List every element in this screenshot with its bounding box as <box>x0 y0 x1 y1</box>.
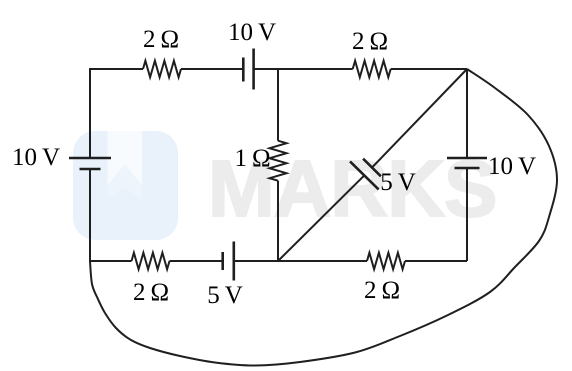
battery V1 10V top long plate <box>252 49 255 90</box>
wire top 3 <box>254 68 353 70</box>
battery V2 10V left short plate <box>80 168 101 171</box>
battery V3 10V right short plate <box>455 167 480 170</box>
watermark logo shield <box>73 131 178 240</box>
battery V2 10V left long plate <box>69 157 111 160</box>
resistor R3 1ohm middle <box>270 141 287 181</box>
svg-text:2 Ω: 2 Ω <box>143 26 179 53</box>
wire left vertical lower <box>89 169 91 262</box>
svg-text:5 V: 5 V <box>380 169 416 196</box>
battery V3 10V right long plate <box>447 157 487 160</box>
svg-text:2 Ω: 2 Ω <box>133 279 169 306</box>
wire left vertical upper <box>89 68 91 158</box>
wire middle vertical upper <box>277 69 279 141</box>
svg-text:10 V: 10 V <box>228 19 276 46</box>
battery V4 5V bottom long plate <box>233 242 236 281</box>
battery V4 5V bottom short plate <box>221 252 224 270</box>
wire bottom 3 <box>234 260 367 262</box>
wire right vertical lower <box>466 168 468 261</box>
wire middle vertical lower <box>277 181 279 261</box>
battery V5 5V diagonal long plate <box>350 161 379 189</box>
resistor R1 2ohm top-left <box>143 61 181 78</box>
svg-text:10 V: 10 V <box>488 153 536 180</box>
wire right vertical upper <box>466 69 468 158</box>
svg-text:2 Ω: 2 Ω <box>352 28 388 55</box>
wire bottom 2 <box>170 260 223 262</box>
wire outer loop curve <box>90 69 557 366</box>
wire bottom 4 <box>405 260 467 262</box>
battery V5 5V diagonal short plate <box>363 159 381 177</box>
battery V1 10V top short plate <box>242 58 245 82</box>
wire top 1 <box>90 68 143 70</box>
wire diagonal lower segment <box>278 175 364 261</box>
wire top 2 <box>181 68 243 70</box>
wire diagonal upper segment <box>372 69 467 168</box>
svg-text:1 Ω: 1 Ω <box>234 145 270 172</box>
svg-text:10 V: 10 V <box>12 144 60 171</box>
resistor R2 2ohm top-right <box>353 61 391 78</box>
resistor R5 2ohm bottom-right <box>367 253 405 270</box>
resistor R4 2ohm bottom-left <box>132 253 170 270</box>
svg-text:5 V: 5 V <box>207 282 243 309</box>
wire bottom 1 <box>90 260 132 262</box>
svg-text:2 Ω: 2 Ω <box>364 277 400 304</box>
wire top 4 <box>391 68 467 70</box>
